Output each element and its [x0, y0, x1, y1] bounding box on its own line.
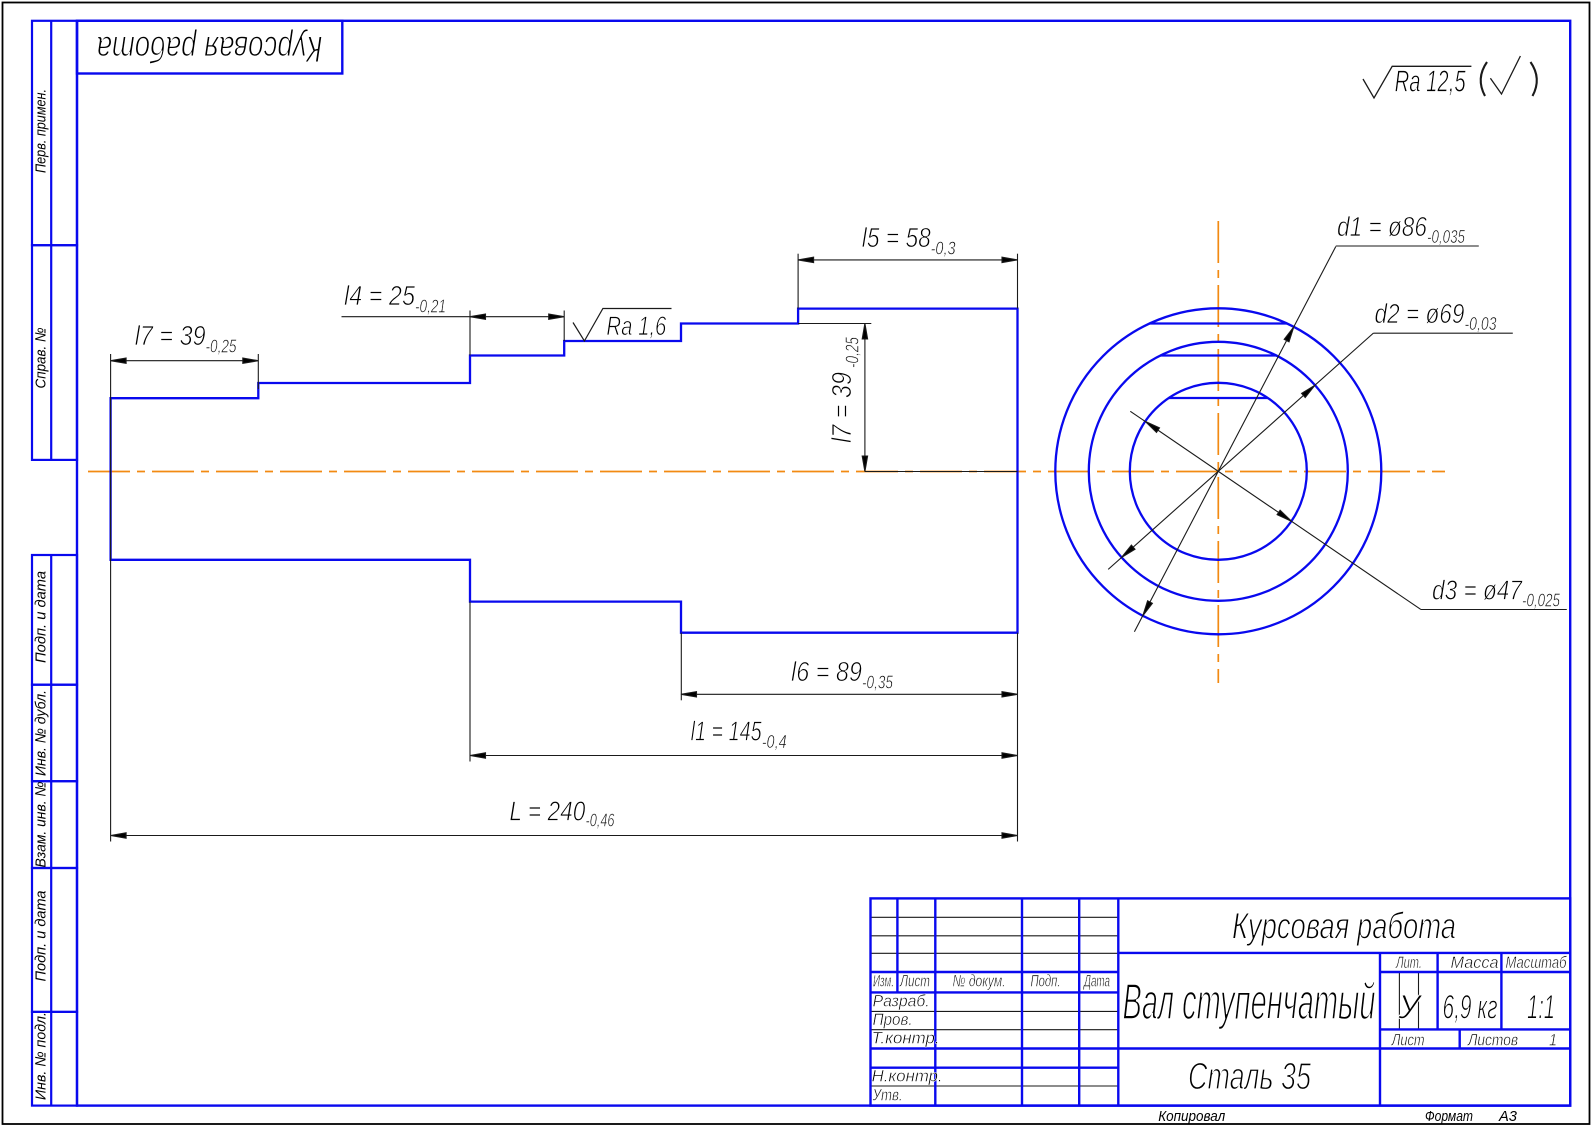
flat chord of d3 — [1169, 397, 1268, 399]
svg-text:d2 = ø69: d2 = ø69 — [1375, 298, 1465, 329]
roughness mark Ra 1,6 — [573, 309, 672, 342]
svg-text:Сталь 35: Сталь 35 — [1188, 1056, 1312, 1098]
svg-text:1: 1 — [1549, 1031, 1557, 1050]
circles vertical centerline — [1217, 221, 1219, 683]
svg-text:Курсовая работа: Курсовая работа — [97, 29, 323, 70]
svg-text:-0,3: -0,3 — [931, 239, 956, 259]
dimension l1 = 145 — [470, 753, 1018, 758]
svg-text:-0,35: -0,35 — [862, 673, 894, 693]
shaft outline — [111, 309, 1018, 633]
svg-text:Инв. № дубл.: Инв. № дубл. — [33, 690, 50, 776]
svg-text:Листов: Листов — [1467, 1031, 1518, 1050]
svg-text:Лист: Лист — [1391, 1031, 1425, 1050]
svg-text:Пров.: Пров. — [873, 1010, 913, 1029]
end view circle d2 — [1089, 342, 1348, 601]
title block thin row lines — [871, 917, 1419, 1086]
flat chord of d1 — [1150, 322, 1287, 324]
svg-text:Н.контр.: Н.контр. — [872, 1067, 943, 1086]
svg-text:-0,25: -0,25 — [206, 337, 238, 357]
svg-text:Дата: Дата — [1083, 972, 1110, 991]
svg-text:Изм.: Изм. — [873, 972, 894, 991]
dimension l6 = 89 — [681, 692, 1018, 697]
svg-text:d3 = ø47: d3 = ø47 — [1432, 575, 1523, 606]
svg-text:Ra 12,5: Ra 12,5 — [1395, 64, 1466, 99]
svg-text:Формат: Формат — [1425, 1108, 1473, 1125]
svg-text:Ra 1,6: Ra 1,6 — [606, 311, 667, 341]
svg-text:Перв. примен.: Перв. примен. — [33, 89, 50, 173]
svg-text:l1 = 145: l1 = 145 — [691, 716, 762, 747]
general roughness mark Ra 12,5 — [1363, 66, 1471, 98]
svg-text:У: У — [1397, 989, 1423, 1027]
svg-text:l5 = 58: l5 = 58 — [862, 222, 931, 253]
left margin cell Подп. и дата (upper) — [32, 555, 77, 685]
end view circle d1 — [1055, 308, 1381, 634]
svg-text:Подп.: Подп. — [1031, 972, 1061, 991]
svg-text:l6 = 89: l6 = 89 — [791, 656, 862, 687]
svg-text:Подп. и дата: Подп. и дата — [33, 891, 50, 982]
dimension L = 240 — [111, 833, 1018, 838]
svg-text:6,9 кг: 6,9 кг — [1443, 989, 1498, 1027]
svg-text:l7 = 39: l7 = 39 — [135, 320, 206, 351]
dimension l5 = 58 — [798, 257, 1017, 262]
bracketed roughness check — [1481, 62, 1487, 96]
svg-text:Масса: Масса — [1451, 953, 1499, 972]
diameter leader d2 — [1108, 333, 1513, 569]
svg-text:Курсовая работа: Курсовая работа — [1232, 906, 1456, 947]
svg-text:-0,025: -0,025 — [1522, 591, 1561, 611]
svg-text:-0,25: -0,25 — [843, 336, 863, 368]
diameter leader d3 — [1130, 411, 1567, 609]
left margin cell Инв. № подл. — [32, 1012, 77, 1106]
svg-text:А3: А3 — [1498, 1108, 1518, 1125]
svg-text:Инв. № подл.: Инв. № подл. — [33, 1012, 50, 1100]
svg-text:Т.контр.: Т.контр. — [872, 1029, 940, 1048]
svg-text:-0,03: -0,03 — [1465, 314, 1497, 334]
svg-text:L = 240: L = 240 — [509, 796, 585, 827]
svg-text:d1 = ø86: d1 = ø86 — [1337, 211, 1427, 242]
title block blue grid — [871, 898, 1571, 1105]
dimension l4 = 25 — [342, 314, 565, 319]
svg-text:1:1: 1:1 — [1527, 989, 1555, 1027]
svg-text:-0,035: -0,035 — [1427, 227, 1466, 247]
svg-text:l7 = 39: l7 = 39 — [826, 372, 857, 443]
diameter leader d1 — [1134, 246, 1478, 632]
dimension l7 = 39 (horizontal, left) — [111, 358, 259, 363]
svg-text:Лит.: Лит. — [1395, 953, 1422, 972]
svg-text:Взам. инв. №: Взам. инв. № — [33, 782, 50, 868]
dimension l7 = 39 (vertical) — [862, 324, 867, 472]
svg-text:-0,4: -0,4 — [762, 732, 787, 752]
top stamp box (Курсовая работа, rotated 180) — [77, 21, 342, 74]
svg-text:Вал ступенчатый: Вал ступенчатый — [1123, 973, 1376, 1030]
left margin cell Взам. инв. № — [32, 781, 77, 868]
left margin cell Подп. и дата (lower) — [32, 868, 77, 1012]
svg-text:№ докум.: № докум. — [953, 972, 1006, 991]
svg-text:Подп. и дата: Подп. и дата — [33, 571, 50, 663]
svg-text:-0,46: -0,46 — [586, 811, 616, 831]
svg-text:Справ. №: Справ. № — [33, 328, 50, 389]
svg-text:Копировал: Копировал — [1158, 1108, 1225, 1125]
svg-text:l4 = 25: l4 = 25 — [344, 280, 415, 311]
flat chord of d2 — [1160, 354, 1276, 356]
svg-text:Утв.: Утв. — [872, 1086, 903, 1105]
main centerline (axis) — [88, 471, 1445, 473]
left margin cell Инв. № дубл. — [32, 685, 77, 782]
left margin cell Справ. № — [32, 245, 77, 460]
svg-text:Разраб.: Разраб. — [873, 992, 930, 1011]
svg-text:Масштаб: Масштаб — [1506, 953, 1568, 972]
svg-text:-0,21: -0,21 — [415, 297, 446, 317]
extension lines — [111, 254, 1018, 842]
end view circle d3 — [1130, 383, 1307, 560]
left margin cell Перв. примен. — [32, 21, 77, 245]
svg-text:Лист: Лист — [899, 972, 930, 991]
